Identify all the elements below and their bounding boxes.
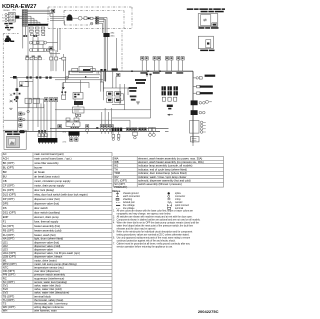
svg-text:quick connect: quick connect [175,204,189,207]
label dark B1 [200,86,213,88]
svg-text:BK (OPT): BK (OPT) [3,161,15,165]
hanging plug HP3 [133,131,137,139]
corner x103.2 [102,80,104,92]
connector cluster CL2 [126,128,137,131]
svg-text:element, drain pump: element, drain pump [34,215,59,219]
connector CN7 dark [103,33,109,37]
svg-text:L: L [2,15,3,17]
svg-text:SV1: SV1 [3,284,9,288]
wire top run 2 [27,11,50,13]
wire winding verticals [22,26,24,48]
rail C y79.8 [25,80,33,82]
sub connector strip dark [38,138,57,144]
svg-text:resistor: resistor [175,201,183,204]
branch switch B2 [193,92,200,95]
connector below bus x116 [116,73,120,76]
console inset frame [4,130,26,149]
dash-dot drop x122 [121,30,123,71]
switch S8 [157,57,160,72]
switch pair S1 [50,57,58,60]
svg-text:ACH: ACH [3,157,9,161]
stack link y107.8 [18,107,30,109]
bus component box A [72,68,78,72]
svg-text:valve, water inlet (cold): valve, water inlet (cold) [34,287,62,291]
switch S5 [141,57,144,72]
door lock contact [84,17,93,20]
svg-text:switch assembly (fill level /: switch assembly (fill level / pressure) [138,182,182,186]
svg-text:wiring diagram reference: wiring diagram reference [34,305,64,309]
svg-text:WV: WV [114,175,119,179]
bus dark ticks [83,69,90,71]
thermostat box [19,82,28,87]
svg-text:over door (dispenser): over door (dispenser) [34,269,60,273]
wire N to filter [7,17,9,19]
wire S1 tops [50,52,52,57]
bus outline overbox [79,66,92,72]
svg-text:indicator lamp assembly (conso: indicator lamp assembly (console, all mo… [138,164,192,168]
svg-text:CF (OPT): CF (OPT) [3,184,15,188]
wire S1 drops [50,60,52,71]
parts table right panel [114,156,224,189]
wire drop x105.5 [105,19,107,33]
svg-text:Refer to the minicircuits for: Refer to the minicircuits for individual… [117,230,193,233]
junction dots y92 [61,91,63,93]
loop vline x147 [146,71,148,77]
plug P3 [104,125,107,134]
connector dark D1 [191,100,198,105]
svg-text:service operation before retur: service operation before returning the a… [117,245,174,248]
inline fuse box x53 [52,9,55,13]
pin tick rows above connector [71,127,79,128]
cross mark [10,94,12,96]
svg-text:shielding: shielding [123,199,133,201]
bus dark dash x96 [96,127,98,129]
label under bus S11 [176,72,183,74]
svg-text:~ ~: ~ ~ [43,59,46,61]
svg-text:splice: splice [175,193,182,195]
lamp block LB [190,121,206,134]
wire vertical feeder x53 [52,10,54,71]
svg-text:water level drops below the re: water level drops below the reset point … [117,224,194,227]
ground triangle [62,87,65,89]
svg-text:wire harness, main: wire harness, main [34,309,57,313]
caption under box1 [198,27,204,29]
svg-text:WH: WH [3,309,8,313]
main bus y71 [69,70,194,72]
svg-text:All wire colors are shown with: All wire colors are shown with the base … [117,209,194,212]
pressure switch circle [66,76,69,79]
svg-text:Use only approved replacement: Use only approved replacement parts of t… [117,236,191,239]
motor winding W2 [29,48,50,51]
svg-text:SV3: SV3 [3,291,9,295]
svg-text:element, wash heater assembly: element, wash heater assembly (no power,… [138,156,202,160]
wire filter to choke [14,15,16,17]
loop vline x120 [119,84,121,105]
interlock capsule row 2 [107,98,121,102]
svg-text:DPS: DPS [3,202,9,206]
svg-text:STL (OPT): STL (OPT) [114,179,127,183]
svg-text:twisted pair: twisted pair [123,201,135,204]
interlock capsule row 1 [107,92,121,96]
stack internal links [74,99,76,101]
noise filter FL1 [9,12,16,22]
svg-text:SC (OPT): SC (OPT) [3,280,15,284]
wire x57-62 from lock box [57,29,59,53]
text rows near 128,88 [129,87,138,101]
rail B y78 [10,77,99,79]
loop vline x124.5 [124,84,126,110]
switch S9 [165,57,168,72]
svg-text:EDP: EDP [3,215,9,219]
svg-text:light, drum (where fitted): light, drum (where fitted) [34,237,63,241]
svg-text:temperature sensor (ntc): temperature sensor (ntc) [34,266,64,270]
bus pin ticks x100 [100,69,102,71]
wire y88 run [104,87,129,89]
heater box H1 [62,95,66,99]
bus-rail jumper [68,71,70,77]
svg-text:LD3: LD3 [3,248,8,252]
legend symbols [116,192,189,210]
bus pins [97,71,100,73]
hanging lamp LP2 [152,131,155,136]
console inset picture [7,136,20,148]
svg-text:valve, water inlet (bleach/pre: valve, water inlet (bleach/pre) [34,291,69,295]
drop x80.5 [80,80,82,93]
svg-text:SV2: SV2 [3,287,9,291]
wire corner y82 [100,81,104,83]
svg-text:DS: DS [3,206,7,210]
junction ticks on lower bus [38,130,40,132]
contact circles D1 [199,102,202,105]
svg-text:W1: W1 [114,164,119,168]
svg-text:dispenser valve (cold): dispenser valve (cold) [34,244,60,248]
option dark mark [167,105,173,110]
wire top run 3 [27,12,53,14]
dip label block [162,86,178,95]
plug terminal G [2,20,7,23]
connector cluster CL1 [112,128,123,132]
label under bus S9 [165,72,172,74]
asterisk mark A [9,100,12,103]
main board stack: mini pair [76,114,81,116]
svg-text:(BK): (BK) [111,32,115,34]
wires drop x112-116 [112,71,114,88]
svg-text:door lock (delay): door lock (delay) [34,188,54,192]
svg-text:NTC: NTC [3,266,9,270]
svg-text:testing procedures; values are: testing procedures; values are nominal a… [117,233,190,236]
svg-text:motor, drain pump supply: motor, drain pump supply [34,184,65,188]
connector dark D2 [191,110,198,115]
inline component F3 [16,96,19,99]
contact pair CP-A [23,35,25,37]
switch pair S2 [59,57,66,60]
motor winding W1 [29,41,46,44]
junction contacts y93 [13,93,15,95]
svg-text:connector: connector [175,195,185,198]
svg-text:dispenser valve: dispenser valve [34,248,53,252]
svg-text:noise filter assembly: noise filter assembly [34,161,59,165]
junction dots y99-101 [14,99,15,100]
svg-text:All switches are shown with ma: All switches are shown with machine empt… [117,215,193,218]
bottom bus lower [20,130,160,132]
loop marks x146-151 [146,74,148,76]
main board stack: eeprom box [73,93,83,100]
inner enclosure line y120 [3,119,130,121]
bottom bus upper [50,127,169,129]
wires into sub connector [40,103,42,138]
svg-text:heater, wash (hot): heater, wash (hot) [34,233,56,237]
svg-text:DL (OPT): DL (OPT) [3,188,15,192]
label dark B2 [200,92,213,94]
svg-text:main control board (part): main control board (part) [34,152,64,156]
caption line 2 [201,11,208,13]
plug P5 [110,125,113,134]
hanging plug HP2 [117,131,120,140]
inline component F2 [16,88,19,91]
door lock switch circle [78,16,82,20]
svg-text:Components shown in dashed out: Components shown in dashed outline are o… [117,218,201,221]
svg-text:dispenser valve, hot fill pre-: dispenser valve, hot fill pre-wash (opt.… [34,251,80,255]
label box L2 [74,118,79,121]
svg-text:element, wash heater assembly: element, wash heater assembly (no pressu… [138,160,204,164]
svg-text:sensor, water level (analog): sensor, water level (analog) [34,280,67,284]
svg-text:Notes: Notes [113,189,121,193]
svg-text:line voltage: line voltage [123,204,135,207]
inset diagram dispenser [198,36,213,48]
rail D y82.4 [63,81,89,83]
notes text block [113,209,201,248]
theta contact [206,100,212,103]
svg-text:valve, water inlet (hot): valve, water inlet (hot) [34,284,60,288]
wire L to filter [7,14,9,16]
aux box right of windings [49,47,53,50]
switch S10 [170,57,173,72]
wire CN3 drops [27,60,29,132]
wire G to filter [7,20,9,22]
plug P1 [86,125,89,134]
door lock inner enclosure [64,11,124,29]
svg-text:(BU): (BU) [111,35,115,37]
svg-text:indicator, wash / rinse / spin: indicator, wash / rinse / spin lamp clus… [138,175,186,179]
svg-text:dispenser motor (hot): dispenser motor (hot) [34,197,60,201]
relay boxes row x44-58 [44,98,57,102]
rail B splice dark [13,76,17,79]
svg-text:chassis ground: chassis ground [123,192,139,195]
switch S7 [153,57,156,72]
svg-text:motor, circulation pump supply: motor, circulation pump supply [34,179,71,183]
connector cluster CL3 [139,128,147,131]
hanging plug HP1 [112,131,115,140]
svg-text:suppressor (interference): suppressor (interference) [34,276,64,280]
svg-text:MTR (OPT): MTR (OPT) [3,262,17,266]
svg-text:BR: BR [3,170,7,174]
label dark pressure [205,75,216,77]
svg-text:WA: WA [114,156,118,160]
micro switch circle [90,22,93,25]
svg-text:(GY): (GY) [63,142,67,144]
wire choke to CN1 [19,15,22,17]
wire top run 1 [27,9,53,11]
wire drop x107 [106,18,108,34]
mini boxes above strip [38,134,47,137]
svg-text:When the timer dial is set to: When the timer dial is set to OFF the dr… [117,221,200,224]
ground at 137,102 [136,102,140,104]
junction dot y76.8 [85,76,86,77]
svg-text:releases and the door may be o: releases and the door may be opened. [117,227,157,230]
wire CN7 down [103,37,105,81]
svg-text:fuse, thermal supply: fuse, thermal supply [34,220,59,224]
svg-text:LDA (OPT): LDA (OPT) [3,251,16,255]
timer motor wide box [29,99,44,108]
bottom module RM [191,137,200,142]
svg-text:TS: TS [3,302,7,306]
svg-text:thermostat, safety (heat): thermostat, safety (heat) [34,298,63,302]
choke coil dark body [16,16,20,19]
svg-text:motor, tub sump pump (drain fi: motor, tub sump pump (drain fitting) [34,262,77,266]
main board stack: dark capsule [74,101,83,105]
svg-text:LD1: LD1 [3,240,8,244]
wires drop x101-105 [100,71,102,82]
svg-text:Cabinet must be grounded at al: Cabinet must be grounded at all times; v… [117,242,191,245]
bus corner down x193 [192,71,194,143]
contact pair CP-B [33,35,35,37]
capsule wire right [121,93,124,95]
switch S6 [145,57,148,72]
plug P2 [100,125,103,134]
label PUMP [5,41,10,42]
svg-text:solenoid, dispenser assembly (: solenoid, dispenser assembly (hot and co… [138,179,191,183]
rail B contacts [26,76,28,78]
wire drop x116 [116,38,118,71]
H1 feeders [61,82,63,95]
hanging lamp LP1 [149,131,152,136]
connector pair CP4 [148,128,155,132]
arrow left [167,114,172,116]
branch switch B1 [193,85,200,88]
below-connector box pair [70,138,79,141]
wire door lock internal [72,17,78,19]
svg-text:(BK): (BK) [13,10,17,12]
asterisk mark B [9,108,12,109]
wires into lock from left [50,16,67,18]
svg-text:HA (OPT): HA (OPT) [3,237,15,241]
timer box T2 [33,98,39,103]
svg-text:heater assembly (hot): heater assembly (hot) [34,224,60,228]
door connector strip [95,17,98,24]
rail E y74.8 [70,74,101,76]
plug P4 [107,125,110,134]
svg-text:FH (OPT): FH (OPT) [3,233,15,237]
wire lock to drop [93,17,104,19]
plug feeder stubs [101,112,103,125]
wire drop x104 [103,18,105,33]
stack switch C [19,124,22,128]
svg-text:F1: F1 [3,220,7,224]
label under bus S5 [140,72,147,74]
svg-text:indicator, door locked lamp (w: indicator, door locked lamp (where fitte… [138,171,187,175]
ground symbol 2 [7,28,11,31]
timer box T1 [25,98,31,103]
loop hline y118 [112,117,151,119]
label NOISE [6,26,9,28]
caption line 1 [187,8,194,10]
svg-text:crimp: crimp [175,198,181,201]
svg-text:M1: M1 [3,258,7,262]
svg-text:DS1 (OPT): DS1 (OPT) [3,211,16,215]
relay contact row K3 [30,34,44,36]
svg-text:indicator, end of cycle lamp (: indicator, end of cycle lamp (where fitt… [138,167,187,171]
svg-text:BU: BU [3,175,7,179]
svg-text:FB (OPT): FB (OPT) [3,229,15,233]
svg-text:terminal block: terminal block [34,294,51,298]
svg-text:(BN): (BN) [63,132,67,134]
svg-text:BU/WH: BU/WH [4,10,11,12]
svg-text:20042275C: 20042275C [198,309,219,314]
parts table left panel [2,152,112,313]
svg-text:earth connection: earth connection [123,195,141,198]
switch stack vertical [17,98,19,131]
main board connector dark [69,132,80,137]
connector CN1 strip [22,10,27,27]
svg-text:AC: AC [3,152,7,156]
svg-text:thermostat, skin / over-temp: thermostat, skin / over-temp [34,302,68,306]
svg-text:WB: WB [114,160,119,164]
door lock solenoid dark icon [67,14,73,20]
svg-text:continued protection against r: continued protection against risk of fir… [117,239,176,242]
connector row CN3 [26,57,42,60]
svg-text:BL (OPT): BL (OPT) [3,166,14,170]
tiny labels under windings [26,56,41,57]
chassis enclosure boundary [3,33,18,35]
svg-text:air break (wax motor): air break (wax motor) [34,175,59,179]
svg-text:dispenser valve (hot): dispenser valve (hot) [34,202,59,206]
stack switch A [19,112,25,116]
svg-text:DP (OPT): DP (OPT) [3,197,15,201]
svg-text:DLS (OPT): DLS (OPT) [3,193,16,197]
svg-text:heater assembly (cold): heater assembly (cold) [34,229,61,233]
inner enclosure line y109.8 [55,109,151,111]
svg-text:dispenser valve (hot): dispenser valve (hot) [34,240,59,244]
chain tail [192,142,194,146]
branch pressure SW [193,77,202,79]
svg-text:PRI (OPT): PRI (OPT) [3,273,16,277]
svg-text:LD2: LD2 [3,244,8,248]
small component x58 [58,125,62,128]
drain pump M2 [4,36,12,41]
console inset header text [5,131,13,133]
caption under box2 [200,50,208,52]
svg-text:OD (OPT): OD (OPT) [3,269,15,273]
bus left dark connector [20,130,24,133]
chassis enclosure vertical [2,34,4,132]
bus component box B [91,68,96,71]
feeder vertical x17 [16,78,18,98]
contact circles D2 [199,111,202,114]
wide box with mark [66,122,80,126]
svg-text:TRM: TRM [114,171,121,175]
svg-text:FA (OPT): FA (OPT) [3,224,14,228]
svg-text:LDB (OPT): LDB (OPT) [3,255,16,259]
svg-text:TH (OPT): TH (OPT) [3,298,15,302]
svg-text:TB (OPT): TB (OPT) [3,294,15,298]
svg-text:main control board (asm. / opt: main control board (asm. / opt.) [34,157,71,161]
bus end tick [165,130,169,132]
terminal bar TB1 [28,24,48,26]
loop vline x150.5 [150,75,152,118]
wires strip to drop [99,17,107,19]
relay contact row K2 [30,30,45,32]
inset diagram door assembly [198,14,218,27]
